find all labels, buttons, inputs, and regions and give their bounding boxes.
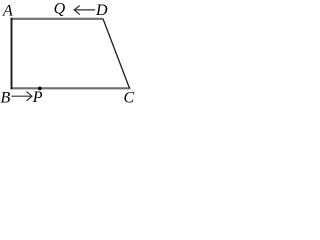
svg-text:P: P [32,89,43,106]
side AB (left edge of trapezoid) [11,18,13,89]
svg-text:Q: Q [54,1,66,18]
svg-text:C: C [124,90,135,107]
svg-text:B: B [1,89,11,106]
svg-text:A: A [2,2,13,19]
svg-text:D: D [95,2,108,19]
point P marker dot on side BC [38,87,42,91]
arrow from B toward P (rightward motion arrow) [12,92,32,101]
arrow from D toward Q (leftward motion arrow) [74,6,94,14]
side AD (top edge of trapezoid) [10,18,103,20]
side DC (slanted right edge of trapezoid) [103,19,130,88]
side BC (bottom edge of trapezoid) [10,87,130,89]
